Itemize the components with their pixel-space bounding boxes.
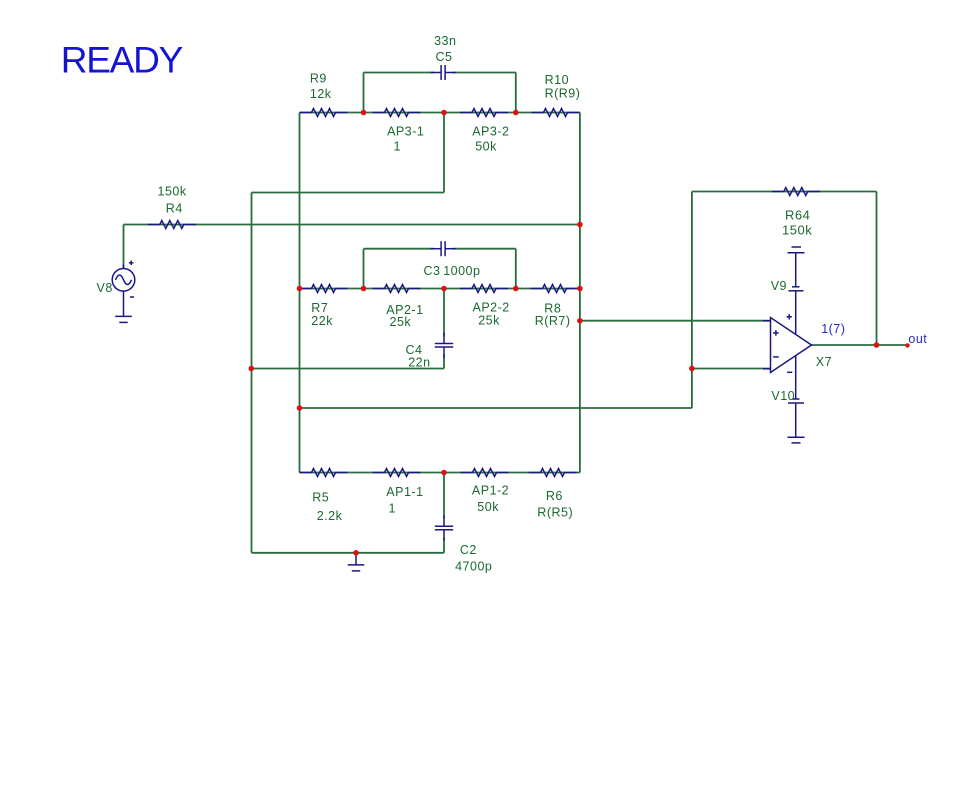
svg-text:V8: V8 xyxy=(97,281,113,295)
svg-text:R10: R10 xyxy=(545,73,569,87)
resistor AP1-1 xyxy=(373,469,421,477)
resistor R64 xyxy=(772,188,820,196)
op-amp X7 xyxy=(763,314,812,372)
resistor R7 xyxy=(300,285,348,293)
svg-text:22n: 22n xyxy=(408,356,430,370)
resistor AP3-1 xyxy=(373,109,421,117)
svg-text:1(7): 1(7) xyxy=(821,322,845,336)
wire C2 ground horizontal xyxy=(252,552,445,554)
wire C5 top left segment xyxy=(364,72,434,74)
svg-text:12k: 12k xyxy=(310,87,332,101)
node output feedback junction xyxy=(874,342,880,348)
voltage source V8 xyxy=(112,261,135,305)
wire middle row net xyxy=(300,288,580,290)
wire C3 left riser xyxy=(363,249,365,289)
wire C5 top right segment xyxy=(453,72,516,74)
svg-text:150k: 150k xyxy=(782,223,812,238)
svg-text:READY: READY xyxy=(61,39,183,80)
svg-text:1: 1 xyxy=(394,140,401,154)
node AP3-2/R10 junction xyxy=(513,110,519,116)
svg-text:R64: R64 xyxy=(785,208,810,223)
node bottom row center junction xyxy=(441,470,447,476)
svg-text:R6: R6 xyxy=(546,489,563,503)
wire C3 right riser xyxy=(515,249,517,289)
capacitor C2 xyxy=(435,516,453,541)
wire C5 right riser xyxy=(515,73,517,113)
wire right main vertical xyxy=(579,113,581,473)
resistor AP2-1 xyxy=(373,285,421,293)
svg-text:R(R5): R(R5) xyxy=(537,506,573,520)
node plus input junction xyxy=(577,318,583,324)
svg-text:2.2k: 2.2k xyxy=(317,509,343,523)
node minus input junction xyxy=(689,366,695,372)
svg-text:1: 1 xyxy=(389,502,396,516)
svg-text:R9: R9 xyxy=(310,72,327,86)
wire op-amp minus input xyxy=(692,368,771,370)
wire op-amp plus input xyxy=(580,320,771,322)
resistor R8 xyxy=(531,285,579,293)
resistor R6 xyxy=(529,469,577,477)
wire AP3 wiper horizontal xyxy=(252,192,445,194)
svg-text:1000p: 1000p xyxy=(443,264,480,278)
svg-text:C5: C5 xyxy=(436,50,453,64)
wire C3 top right segment xyxy=(453,248,516,250)
svg-text:R(R9): R(R9) xyxy=(545,87,581,101)
wire C2 bottom lead xyxy=(443,538,445,553)
ground C2 net xyxy=(348,553,365,571)
node R4/right vertical junction xyxy=(577,222,583,228)
wire AP3 wiper drop xyxy=(443,113,445,193)
svg-text:AP3-1: AP3-1 xyxy=(387,125,424,139)
wire left aux vertical xyxy=(251,193,253,553)
resistor R4 xyxy=(148,221,196,229)
capacitor C5 xyxy=(431,65,456,80)
capacitor C4 xyxy=(435,333,453,358)
svg-text:X7: X7 xyxy=(816,355,832,369)
svg-text:R5: R5 xyxy=(312,491,329,505)
wire bottom row net xyxy=(300,472,580,474)
svg-text:50k: 50k xyxy=(477,500,499,514)
ground V8 xyxy=(115,304,132,322)
svg-text:AP1-2: AP1-2 xyxy=(472,484,509,498)
svg-text:25k: 25k xyxy=(390,315,412,329)
battery V10 xyxy=(788,356,804,438)
svg-text:AP2-2: AP2-2 xyxy=(473,301,510,315)
resistor AP1-2 xyxy=(461,469,509,477)
resistor R5 xyxy=(300,469,348,477)
wire R64 top net xyxy=(692,191,877,193)
node AP3 wiper junction xyxy=(441,110,447,116)
node ground junction xyxy=(353,550,359,556)
wire C2 top lead xyxy=(443,473,445,519)
ground V10 xyxy=(788,437,805,443)
resistor R9 xyxy=(300,109,348,117)
battery V9 xyxy=(788,247,805,335)
wire C4 top lead xyxy=(443,289,445,337)
svg-text:150k: 150k xyxy=(158,185,187,199)
svg-text:AP3-2: AP3-2 xyxy=(472,125,509,139)
svg-text:V9: V9 xyxy=(771,279,787,293)
wire output net xyxy=(812,344,908,346)
svg-text:33n: 33n xyxy=(434,34,456,48)
wire C4 bottom lead xyxy=(443,355,445,369)
node middle row left junction xyxy=(297,286,303,292)
capacitor C3 xyxy=(431,241,456,256)
svg-text:50k: 50k xyxy=(475,140,497,154)
svg-text:C3: C3 xyxy=(424,264,441,278)
wire lower feedback horizontal xyxy=(300,407,692,409)
node C4 bottom left junction xyxy=(249,366,255,372)
svg-text:R4: R4 xyxy=(166,202,183,216)
wire C5 left riser xyxy=(363,73,365,113)
node R7/AP2-1 junction xyxy=(361,286,367,292)
svg-text:R(R7): R(R7) xyxy=(535,314,571,328)
node R9/AP3-1 junction xyxy=(361,110,367,116)
terminal out xyxy=(905,343,909,347)
svg-text:V10: V10 xyxy=(771,389,795,403)
svg-text:25k: 25k xyxy=(478,314,500,328)
wire V8 top lead xyxy=(123,225,125,270)
wire left main vertical xyxy=(299,113,301,473)
svg-text:out: out xyxy=(908,332,927,346)
wire C3 top left segment xyxy=(364,248,434,250)
svg-text:C2: C2 xyxy=(460,543,477,557)
node lower feedback junction xyxy=(297,405,303,411)
resistor AP2-2 xyxy=(460,285,508,293)
svg-text:AP1-1: AP1-1 xyxy=(386,485,423,499)
node AP2 center junction xyxy=(441,286,447,292)
wire feedback vertical xyxy=(691,192,693,409)
node AP2-2/R8 junction xyxy=(513,286,519,292)
resistor R10 xyxy=(532,109,580,117)
resistor AP3-2 xyxy=(460,109,508,117)
svg-text:4700p: 4700p xyxy=(455,560,492,574)
node middle row right junction xyxy=(577,286,583,292)
svg-text:22k: 22k xyxy=(311,314,333,328)
wire R64 right vertical xyxy=(876,192,878,346)
wire top row net xyxy=(300,112,580,114)
wire R4 output net xyxy=(124,224,580,226)
wire C4 bottom horizontal xyxy=(251,368,444,370)
